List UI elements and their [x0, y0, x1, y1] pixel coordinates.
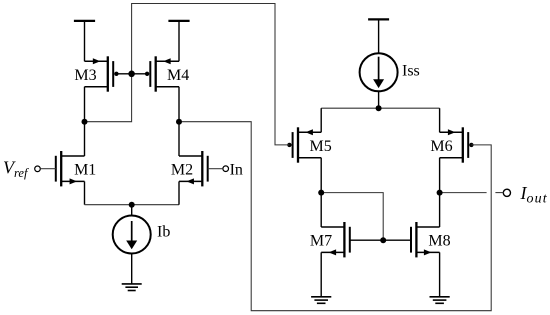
- wire M5 drain down to node: [320, 158, 322, 193]
- supply VDD above M3: [74, 21, 95, 61]
- transistor M6 (PMOS): [440, 127, 474, 162]
- wire rail down to M5 source: [320, 108, 322, 132]
- wire M2 source down: [178, 181, 180, 204]
- ground below M7: [311, 297, 331, 304]
- wire node down to M8 drain: [439, 193, 441, 227]
- node M6 drain: [437, 190, 443, 196]
- wire tail M1-M2 sources: [85, 204, 180, 206]
- wire M2 gate to In: [208, 168, 223, 170]
- wire tail node to Ib: [131, 205, 133, 216]
- node M3-M4 gates junction: [128, 71, 135, 78]
- wire M8 source to ground: [439, 252, 441, 296]
- wire rail down to M6 source: [439, 108, 441, 132]
- transistor M2 (NMOS): [179, 151, 208, 186]
- wire node down to M2 drain: [178, 122, 180, 156]
- wire Iss bottom stub: [378, 91, 380, 108]
- svg-text:M8: M8: [428, 233, 450, 250]
- transistor M8 (NMOS): [411, 222, 440, 257]
- transistor M7 (NMOS): [321, 222, 350, 257]
- svg-text:In: In: [230, 162, 243, 179]
- wire M4 drain node right down along bottom up to M6 gate: [179, 122, 491, 311]
- ground below M8: [430, 297, 450, 304]
- node Iss rail: [376, 105, 382, 111]
- ground below Ib: [122, 284, 142, 291]
- current source Ib: [113, 216, 151, 254]
- svg-text:M4: M4: [167, 67, 189, 84]
- wire node down to M7 drain: [320, 193, 322, 227]
- svg-text:Ib: Ib: [157, 223, 170, 240]
- terminal In: [223, 166, 229, 172]
- wire M6 drain down to node: [439, 158, 441, 193]
- svg-text:M7: M7: [310, 233, 332, 250]
- supply VDD above M4: [168, 21, 189, 61]
- wire Vref to M1 gate: [40, 168, 56, 170]
- wire M6 drain node to Iout terminal with crossing gap: [440, 192, 487, 194]
- wire M7 source to ground: [320, 252, 322, 296]
- svg-text:M1: M1: [74, 162, 96, 179]
- wire node down to M1 drain: [84, 122, 86, 156]
- terminal Vref: [35, 166, 41, 172]
- wire M3 drain down to node: [84, 87, 86, 122]
- node M7-M8 gates junction: [380, 237, 386, 243]
- transistor M1 (NMOS): [56, 151, 85, 186]
- wire Ib to ground: [131, 254, 133, 284]
- supply VDD above Iss: [368, 19, 389, 53]
- svg-text:Iss: Iss: [402, 63, 420, 80]
- wire M5 drain node to M7 M8 gate junction: [321, 193, 383, 241]
- transistor M5 (PMOS): [287, 127, 321, 162]
- transistor M3 (PMOS): [85, 56, 119, 91]
- svg-text:M2: M2: [171, 162, 193, 179]
- wire gate M7 to gate M8: [350, 239, 411, 241]
- svg-text:Iout: Iout: [520, 183, 548, 207]
- node M3 drain: [82, 119, 88, 125]
- wire Iss rail: [321, 107, 439, 109]
- svg-text:M6: M6: [430, 138, 452, 155]
- transistor M4 (PMOS): [145, 56, 179, 91]
- wire M3 drain node to gate junction: [85, 74, 132, 122]
- svg-text:Vref: Vref: [3, 157, 29, 180]
- node tail junction: [129, 202, 135, 208]
- wire M1 source down: [84, 181, 86, 204]
- current source Iss: [360, 53, 398, 91]
- node M5 drain: [318, 190, 324, 196]
- terminal Iout: [503, 189, 510, 196]
- node M4 drain: [176, 119, 182, 125]
- wire gate junction up over to M5 gate: [132, 4, 290, 145]
- wire gate M3 to gate M4: [116, 73, 147, 75]
- svg-text:M3: M3: [74, 67, 96, 84]
- wire M4 drain down to node: [178, 87, 180, 122]
- svg-text:M5: M5: [309, 138, 331, 155]
